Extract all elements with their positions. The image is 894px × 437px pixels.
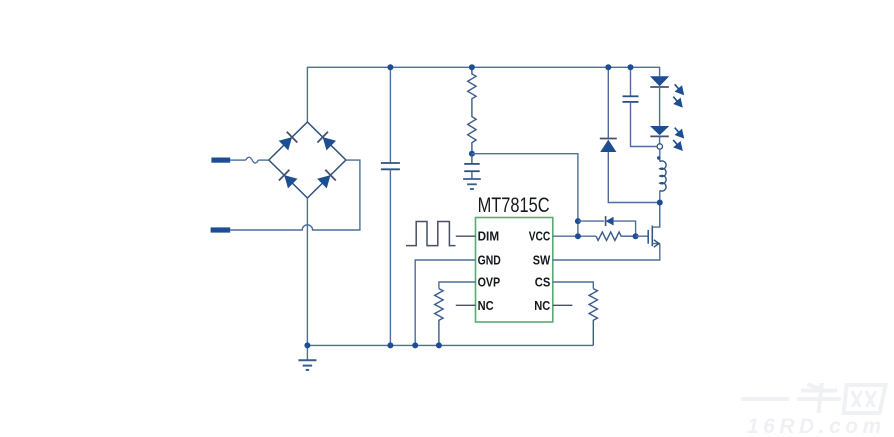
- LED2 light arrow b: [670, 137, 687, 154]
- svg-text:MT7815C: MT7815C: [478, 194, 550, 217]
- junction VCC node: [575, 233, 581, 239]
- junction C1 top: [387, 64, 393, 70]
- resistor R1 (divider upper): [468, 67, 476, 103]
- junction C2 at top rail: [628, 64, 634, 70]
- svg-text:NC: NC: [534, 298, 550, 313]
- wire C2 bottom to LED- node: [631, 102, 658, 147]
- LED1 triangle: [650, 76, 669, 86]
- capacitor C1 bottom lead: [389, 169, 391, 345]
- node circle (LED- / inductor top): [657, 144, 662, 149]
- wire top rail: [307, 67, 659, 122]
- resistor R2 (divider lower): [468, 103, 476, 154]
- wire fuse to bridge left vertex: [258, 159, 268, 161]
- junction R3 at rail: [436, 342, 442, 348]
- wire LED2 to node circle: [659, 136, 661, 143]
- svg-text:OVP: OVP: [478, 275, 501, 290]
- svg-text:DIM: DIM: [478, 229, 500, 244]
- IC U1 MT7815C box: [476, 218, 553, 323]
- capacitor C1 (bulk) top lead: [389, 67, 391, 163]
- junction R1 top: [469, 64, 475, 70]
- wire inductor to SW node: [659, 191, 661, 228]
- wire NC right stub: [553, 304, 573, 306]
- wire from T1 to fuse: [230, 159, 246, 161]
- inductor L1 winding: [660, 161, 666, 191]
- MOSFET Q1 source stub with arrow: [652, 243, 660, 245]
- resistor R4 (CS): [589, 289, 597, 346]
- LED1 light arrow b: [670, 93, 687, 110]
- diode D6 (freewheeling) lead from rail: [607, 67, 609, 138]
- junction divider tap: [469, 151, 475, 157]
- LED2 cathode bar: [650, 135, 669, 137]
- fuse F1 squiggle: [246, 157, 259, 163]
- junction GND at rail: [412, 342, 418, 348]
- diode D1 (bridge top-left): [278, 132, 297, 151]
- svg-text:GND: GND: [478, 252, 501, 267]
- input terminal T2 (neutral): [211, 227, 231, 232]
- MOSFET Q1 drain stub: [652, 203, 660, 228]
- wire divider tap to VCC node: [472, 154, 578, 237]
- junction SW node: [657, 200, 663, 206]
- wire DIM pin stub: [456, 235, 476, 237]
- wire D6 anode to SW node: [608, 152, 660, 203]
- wire VCC pin to node: [553, 235, 596, 237]
- wire from T2 with hop over bridge-bottom line: [230, 160, 360, 230]
- ground GND2 (C3): [463, 179, 481, 189]
- wire NC left stub: [456, 304, 476, 306]
- diode D2 (bridge top-right): [317, 132, 336, 151]
- capacitor C2 (output) top lead: [630, 67, 632, 96]
- input terminal T1 (line): [211, 158, 230, 163]
- svg-text:VCC: VCC: [529, 229, 551, 244]
- watermark yiniu logo: [740, 383, 886, 413]
- wire GND pin to bottom rail: [415, 260, 475, 345]
- LED1 cathode bar: [650, 86, 669, 88]
- PWM waveform annotation: [406, 222, 456, 246]
- resistor R5 (gate series): [596, 232, 636, 240]
- junction gate node: [633, 233, 639, 239]
- wire bridge bottom to ground rail: [306, 198, 308, 360]
- svg-text:NC: NC: [478, 298, 494, 313]
- diode D6 cathode bar: [600, 138, 617, 140]
- wire SW pin to MOSFET source: [553, 244, 660, 261]
- LED1 light arrow a: [671, 81, 688, 98]
- wire gate node to gate: [636, 235, 649, 237]
- wire OVP pin to R3: [439, 282, 476, 289]
- diode D3 (bridge bottom-left): [279, 170, 298, 189]
- resistor R3 (OVP): [435, 289, 443, 346]
- MOSFET Q1 gate bar: [647, 230, 649, 244]
- junction bottom-rail at ground: [304, 342, 310, 348]
- capacitor C3 (VCC bypass) leads: [471, 154, 473, 179]
- diode D5 (parallel with R5, pointing left): [606, 216, 614, 226]
- capacitor C2 plates: [623, 96, 639, 102]
- wire bottom rail: [307, 344, 593, 346]
- capacitor C1 plates: [381, 163, 400, 169]
- wire LED1 to LED2: [659, 87, 661, 126]
- MOSFET Q1 channel bar: [651, 226, 653, 247]
- ground GND1 main: [298, 360, 316, 370]
- capacitor C3 plates: [464, 164, 480, 171]
- diode D6 triangle (pointing up): [600, 140, 616, 152]
- svg-text:SW: SW: [533, 252, 551, 267]
- LED2 triangle: [650, 126, 669, 135]
- junction diode branch: [575, 218, 581, 224]
- junction D6 at top rail: [605, 64, 611, 70]
- wire diode branch upper: [578, 221, 636, 236]
- LED2 light arrow a: [671, 124, 688, 141]
- bridge rectifier BR1 diamond edges: [269, 122, 346, 198]
- svg-text:16RD.com: 16RD.com: [747, 415, 886, 437]
- inductor L1 polarity dot: [657, 156, 660, 159]
- wire node circle to inductor: [659, 149, 661, 161]
- svg-text:CS: CS: [535, 275, 551, 290]
- diode D4 (bridge bottom-right): [317, 170, 336, 189]
- wire CS pin to R4: [553, 282, 594, 289]
- junction C1 bottom: [387, 342, 393, 348]
